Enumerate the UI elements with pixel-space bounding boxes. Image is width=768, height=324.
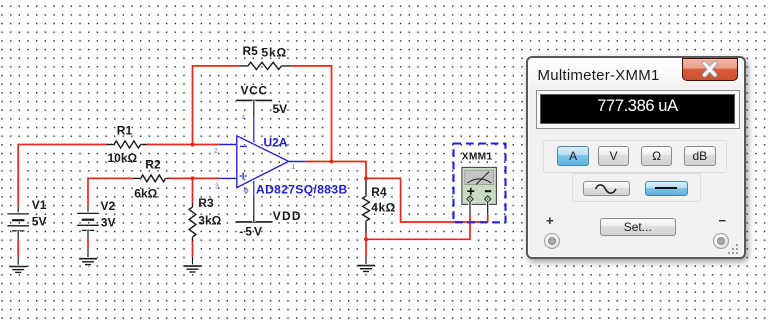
- svg-text:5kΩ: 5kΩ: [262, 45, 287, 59]
- group box modes: [543, 140, 728, 173]
- svg-text:5V: 5V: [273, 102, 288, 116]
- junction node R4 top: [364, 176, 368, 180]
- meter display bezel: [536, 90, 740, 129]
- button dB: [684, 146, 716, 167]
- power rail VDD: [236, 179, 273, 222]
- svg-text:6kΩ: 6kΩ: [134, 187, 157, 201]
- resistor R4: [363, 181, 370, 233]
- wire feedback node to R5 left: [193, 66, 240, 145]
- op-amp U2A: [220, 136, 306, 188]
- power rail VCC: [236, 100, 272, 145]
- svg-text:3: 3: [215, 183, 219, 190]
- button Ω: [641, 146, 673, 167]
- button A (selected): [557, 146, 590, 167]
- resistor R2: [133, 175, 169, 182]
- button V: [598, 146, 629, 167]
- instrument XMM1 icon: [460, 166, 498, 215]
- ground below R4: [357, 257, 375, 271]
- minus terminal jack: [713, 233, 729, 249]
- close button: [682, 58, 738, 81]
- selection box around XMM1: [454, 144, 506, 223]
- svg-text:R5: R5: [243, 44, 259, 58]
- svg-text:R4: R4: [371, 185, 387, 199]
- pin 11 marker: [244, 187, 248, 194]
- junction node R4 bottom: [364, 237, 368, 241]
- wire R1 to op-amp pin 2: [147, 143, 220, 146]
- svg-text:4: 4: [242, 115, 246, 122]
- voltage source V2: [77, 205, 99, 239]
- wire node to R3 top: [191, 178, 194, 203]
- wire V2 bottom to ground: [86, 239, 89, 249]
- svg-text:10kΩ: 10kΩ: [108, 151, 138, 165]
- ground below V2: [79, 248, 97, 264]
- resistor R3: [189, 203, 196, 241]
- svg-text:3V: 3V: [101, 216, 116, 230]
- wire R4 bottom node to ground: [364, 233, 367, 258]
- resize grip: [726, 242, 740, 256]
- junction node R2/R3 net: [190, 176, 194, 180]
- svg-text:VCC: VCC: [241, 84, 268, 98]
- svg-text:5V: 5V: [32, 214, 47, 228]
- svg-text:R2: R2: [145, 158, 161, 172]
- wire R2 to op-amp pin 3: [169, 177, 220, 180]
- svg-text:U2A: U2A: [264, 135, 288, 149]
- junction node output/feedback: [329, 159, 333, 163]
- window title text: [538, 67, 660, 84]
- svg-text:AD827SQ/883B: AD827SQ/883B: [256, 183, 348, 197]
- ground below R3: [184, 257, 202, 272]
- svg-text:V1: V1: [32, 198, 47, 212]
- svg-text:R3: R3: [198, 196, 214, 210]
- plus terminal label: [546, 213, 554, 228]
- plus terminal jack: [544, 233, 560, 249]
- meter display black area: [540, 94, 735, 124]
- ground below V1: [9, 257, 27, 272]
- wire V2 top to R2 (non-inverting net): [88, 178, 133, 205]
- svg-text:V2: V2: [101, 199, 116, 213]
- resistor R5: [239, 62, 291, 69]
- junction node feedback/R1 net: [190, 142, 194, 146]
- button sine wave: [583, 181, 631, 196]
- voltage source V1: [7, 206, 29, 240]
- wire R4 top to XMM1 minus terminal: [366, 178, 488, 222]
- wire R3 bottom to ground: [191, 241, 194, 257]
- window title bar: [529, 58, 742, 84]
- group box waveform: [572, 173, 701, 203]
- svg-text:1: 1: [292, 164, 296, 171]
- DC line glyph: [655, 187, 677, 189]
- minus terminal label: [719, 213, 727, 228]
- wire V1 bottom to ground: [17, 240, 20, 258]
- wire R5 right to output node: [291, 66, 332, 162]
- svg-text:XMM1: XMM1: [462, 152, 493, 163]
- svg-text:VDD: VDD: [273, 209, 302, 223]
- meter reading text: [540, 94, 735, 124]
- svg-text:R1: R1: [117, 123, 133, 137]
- wire V1 top to R1 (inverting input net): [18, 145, 106, 206]
- button Set...: [600, 218, 677, 236]
- button DC (selected): [645, 181, 689, 196]
- svg-text:-5V: -5V: [239, 225, 264, 239]
- wire op-amp output to R4 top: [305, 162, 366, 179]
- svg-text:3kΩ: 3kΩ: [198, 214, 221, 228]
- multimeter window XMM1: [526, 56, 746, 259]
- resistor R1: [107, 141, 148, 148]
- wire XMM1 plus terminal to R4 bottom node: [366, 214, 470, 239]
- svg-text:2: 2: [214, 148, 218, 155]
- svg-text:4kΩ: 4kΩ: [371, 201, 395, 215]
